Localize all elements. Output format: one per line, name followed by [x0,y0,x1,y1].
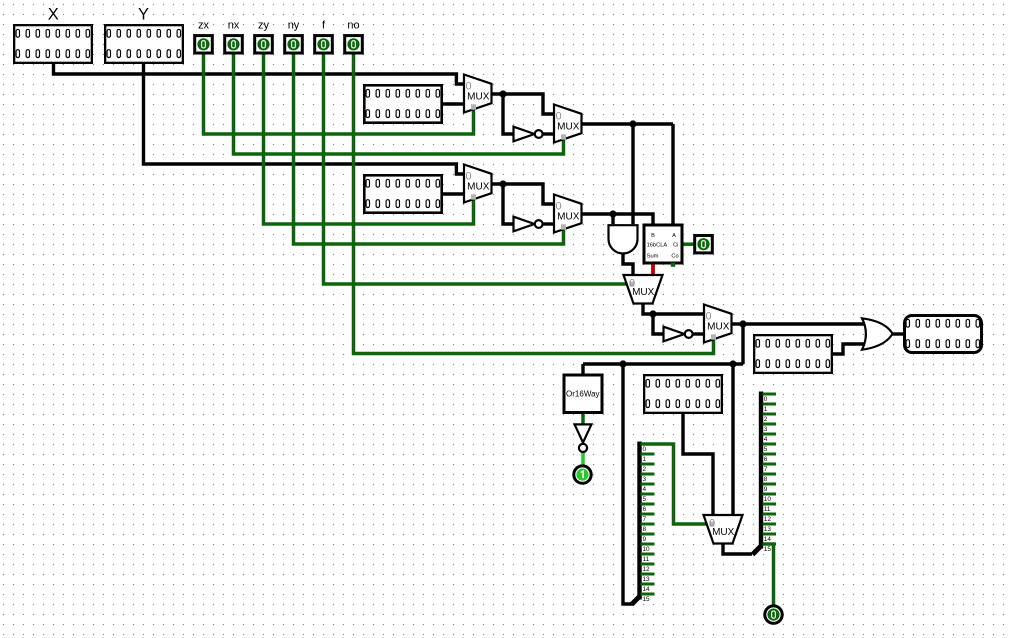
mux U7 [704,515,743,544]
input X (16-bit pin) [14,25,92,63]
pin no label [347,20,359,32]
svg-text:3: 3 [643,476,647,483]
or gate O1 [862,318,893,349]
svg-text:ny: ny [288,20,300,32]
pin zr output (value 1) [574,466,591,483]
svg-text:15: 15 [764,546,772,553]
wire NOT2 out [543,222,554,225]
wire Or16Way feed [581,364,584,375]
probe display 2 [754,335,832,373]
node xx bus junction [629,120,636,127]
svg-text:no: no [347,20,359,32]
not gate N4 [575,424,592,452]
wire MUX5 to MUX6 in0 [653,312,704,315]
pin zy label [258,20,270,32]
mux U5 (f) [624,275,663,304]
wire NOT4 out (value 1) [581,452,585,467]
wire AND out to MUX5 [623,252,633,275]
and gate A1 (x and y) [609,225,638,253]
wire MUX5 out [643,303,653,314]
wire out bus [583,362,743,365]
svg-text:zx: zx [198,20,210,32]
svg-text:B: B [651,233,655,239]
svg-text:Or16Way: Or16Way [566,389,600,398]
svg-text:9: 9 [643,536,647,543]
svg-text:9: 9 [764,486,768,493]
wire MUX3 out to MUX4 in0 [491,184,554,204]
svg-text:2: 2 [643,466,647,473]
wire NOT3 out [693,332,704,335]
node yy bus junction [609,210,616,217]
svg-text:MUX: MUX [467,91,490,102]
pin zx [195,36,213,53]
pin ng output (value 0) [765,606,782,623]
svg-text:nx: nx [228,20,240,32]
svg-text:0: 0 [764,396,768,403]
svg-text:16bCLA: 16bCLA [647,243,668,249]
svg-text:8: 8 [643,526,647,533]
splitter SP2 (MUX7 out bits 0-15) [753,392,777,555]
node out junction [739,320,746,327]
wire SP2 bit15 to ng pin [763,544,774,606]
wire Or16Way out [581,411,585,425]
output display (16-bit out) [905,316,982,353]
pin ny label [288,20,300,32]
wire OR out [890,332,905,335]
wire left splitter trunk [623,364,633,604]
svg-text:14: 14 [643,586,651,593]
pin ny [285,36,303,53]
svg-text:Co: Co [671,254,678,260]
wire MUX1 out to MUX2 in0 [491,94,554,114]
mux U1 (zx) [464,75,492,113]
wire probe1 to MUX7 [683,412,713,515]
input Y (16-bit pin) [105,25,183,63]
wire MUX1 out to NOT1 [503,94,514,134]
wire MUX4 out to adder B [581,214,653,224]
svg-text:MUX: MUX [557,121,580,132]
wire MUX6 out [730,322,743,325]
mux U3 (zy) [464,165,492,203]
pin Ci [695,236,713,253]
wire const1 to MUX1 [443,102,464,105]
constant zero 1 [364,85,441,122]
svg-text:3: 3 [764,426,768,433]
wire probe2 to OR gate [831,344,867,354]
svg-text:8: 8 [764,476,768,483]
mux U6 (no) [704,305,732,343]
pin zy [255,36,273,53]
node MUX3 out junction [499,180,506,187]
pin nx [225,36,243,53]
wire MUX5 to NOT3 [653,314,664,334]
wire to adder A [671,124,674,224]
wire out down [741,324,744,364]
svg-text:MUX: MUX [632,287,655,298]
svg-text:MUX: MUX [707,321,730,332]
wire out to OR gate [743,322,867,325]
svg-text:5: 5 [764,446,768,453]
splitter SP1 (out bus bits 0-15) [632,442,655,605]
svg-text:14: 14 [764,536,772,543]
constant zero 2 [364,175,441,212]
wire ny select [294,52,564,244]
wire X bus [54,60,465,84]
svg-text:7: 7 [764,466,768,473]
node MUX5 out junction [649,310,656,317]
wire to AND in A [611,214,614,224]
pin no [345,36,363,53]
wire MUX7 out [723,543,752,555]
node out bus junction B [729,360,736,367]
svg-text:X: X [48,6,59,24]
input X label [48,6,59,24]
input Y label [138,6,149,24]
wire to AND in B [631,124,634,224]
svg-text:A: A [672,233,676,239]
svg-text:12: 12 [764,516,772,523]
wire MUX7 right feed [731,364,734,515]
wire Y bus [144,60,465,174]
svg-text:7: 7 [643,516,647,523]
not gate N3 [664,327,693,342]
svg-text:2: 2 [764,416,768,423]
mux U4 (ny) [554,195,582,233]
svg-text:Ci: Ci [673,243,678,249]
pin f label [322,20,326,32]
subcircuit Or16Way [564,375,602,413]
svg-text:15: 15 [643,596,651,603]
wire MUX2 out [581,122,673,125]
svg-text:5: 5 [643,496,647,503]
svg-text:10: 10 [643,546,651,553]
svg-text:MUX: MUX [557,211,580,222]
svg-text:11: 11 [643,556,650,563]
svg-text:MUX: MUX [467,181,490,192]
probe display 1 [644,375,722,413]
node MUX1 out junction [499,90,506,97]
wire Ci pin to adder [683,242,694,246]
svg-text:1: 1 [643,456,647,463]
node out bus junction A [619,360,626,367]
svg-text:MUX: MUX [712,527,735,538]
pin nx label [228,20,240,32]
wire NOT1 out [543,132,554,135]
svg-text:12: 12 [643,566,651,573]
pin zx label [198,20,210,32]
wire MUX3 out to NOT2 [503,184,514,224]
svg-text:1: 1 [764,406,768,413]
wire nx select [234,52,564,154]
svg-text:6: 6 [643,506,647,513]
svg-text:6: 6 [764,456,768,463]
pin f [315,36,333,53]
mux U2 (nx) [554,105,582,143]
wire zy select [264,52,474,224]
wire adder Sum error [651,263,655,276]
adder U8 16bCLA [644,225,682,267]
not gate N1 [514,127,543,142]
svg-text:13: 13 [643,576,651,583]
svg-text:Sum: Sum [647,254,659,260]
not gate N2 [514,217,543,232]
svg-text:zy: zy [258,20,270,32]
wire const2 to MUX3 [443,192,464,195]
svg-text:13: 13 [764,526,772,533]
wire SP1 bit0 to MUX7 select [641,444,707,524]
svg-text:Y: Y [138,6,149,24]
wire f select [324,52,629,284]
svg-text:4: 4 [643,486,647,493]
wire zx select [204,52,474,134]
wire no select [354,52,714,354]
svg-text:4: 4 [764,436,768,443]
svg-text:10: 10 [764,496,772,503]
svg-text:11: 11 [764,506,771,513]
svg-text:0: 0 [643,446,647,453]
